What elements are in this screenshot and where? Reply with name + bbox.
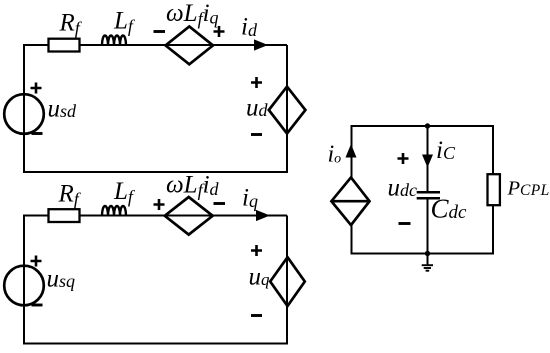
label Rf (d-axis) [59,10,83,39]
label u_sd [48,95,78,122]
wire: q-axis left vertical (through source) [23,215,25,344]
current arrow iC (down) [422,155,433,168]
svg-text:io: io [328,142,342,168]
label Lf (d-axis) [113,8,136,37]
svg-text:uq: uq [249,264,271,291]
svg-text:ωLfiq: ωLfiq [166,0,219,29]
wire: d-axis bottom rail [23,171,288,173]
current arrow iq [256,210,270,221]
resistor Rf (q-axis) [49,209,80,222]
label u_q [249,264,271,291]
label Rf (q-axis) [58,181,82,210]
wire: q-axis right vertical (through u_q source) [286,216,288,344]
junction node (dc top middle) [425,123,430,128]
polarity minus (u_d) [251,133,262,136]
svg-text:usd: usd [48,95,78,122]
dependent source omega*Lf*id (diamond, q-axis) [165,197,213,235]
polarity minus (u_dc) [399,222,411,225]
svg-text:Lf: Lf [113,8,136,37]
dependent source omega*Lf*iq (diamond, d-axis) [166,27,214,65]
ground [422,254,433,271]
resistor P_CPL (box, dc right) [488,174,500,205]
label iq [242,185,258,212]
dependent source u_q (diamond, q-axis right) [270,257,305,306]
svg-text:udc: udc [388,175,418,202]
polarity plus (u_sq) [31,256,42,267]
polarity minus (u_q) [251,314,262,317]
svg-text:ud: ud [246,95,269,122]
label Cdc [431,193,468,223]
wire: d-axis top rail [23,44,287,46]
svg-text:usq: usq [47,266,76,293]
junction node (dc bottom middle) [425,251,430,256]
label io [328,142,342,168]
current arrow io (up) [346,144,357,158]
polarity minus (u_sq) [32,304,43,307]
svg-text:ωLfid: ωLfid [166,172,220,201]
label P_CPL [507,178,550,200]
svg-text:PCPL: PCPL [507,178,550,200]
wire: d-axis left vertical (through source) [23,44,25,172]
svg-text:Rf: Rf [58,181,82,210]
polarity plus (right of diamond, d-axis) [214,26,225,37]
svg-text:Lf: Lf [113,178,136,207]
polarity plus (u_d) [251,77,262,88]
dependent source u_d (diamond, d-axis right) [269,87,306,134]
wire: dc middle branch lower segment [427,199,429,255]
label omega Lf id [166,172,220,201]
wire: dc bottom rail [351,253,495,255]
polarity minus (left of diamond, d-axis) [154,30,166,33]
inductor Lf (q-axis) [102,206,126,216]
label u_dc [388,175,418,202]
wire: q-axis bottom rail [23,343,288,345]
capacitor Cdc plates [417,192,440,198]
polarity plus (left of diamond, q-axis) [154,199,165,210]
dependent source io (diamond, dc left) [331,177,369,225]
wire: q-axis top rail [23,215,287,217]
label u_sq [47,266,76,293]
polarity minus (right of diamond, q-axis) [214,202,226,205]
wire: dc left branch lower segment [351,224,353,255]
polarity minus (u_sd) [32,132,43,135]
svg-text:iq: iq [242,185,258,212]
polarity plus (u_sd) [31,83,42,94]
svg-text:Rf: Rf [59,10,83,39]
wire: dc right branch lower segment [492,205,494,255]
wire: dc left branch upper segment [351,125,353,178]
wire: dc top rail [351,125,495,127]
voltage source u_sq (circle) [4,266,44,306]
resistor Rf (d-axis) [49,39,80,52]
svg-text:id: id [241,14,258,41]
svg-text:iC: iC [436,137,456,164]
wire: d-axis right vertical (through u_d source) [286,45,288,172]
label omega Lf iq [166,0,219,29]
voltage source u_sd (circle) [4,94,44,134]
label iC [436,137,456,164]
wire: dc middle branch upper segment [427,125,429,192]
inductor Lf (d-axis) [102,36,126,46]
polarity plus (u_q) [251,245,262,256]
wire: dc right branch upper segment [492,125,494,175]
svg-text:Cdc: Cdc [431,193,468,223]
label u_d [246,95,269,122]
label id [241,14,258,41]
polarity plus (u_dc) [398,153,409,164]
label Lf (q-axis) [113,178,136,207]
current arrow id [254,39,268,50]
